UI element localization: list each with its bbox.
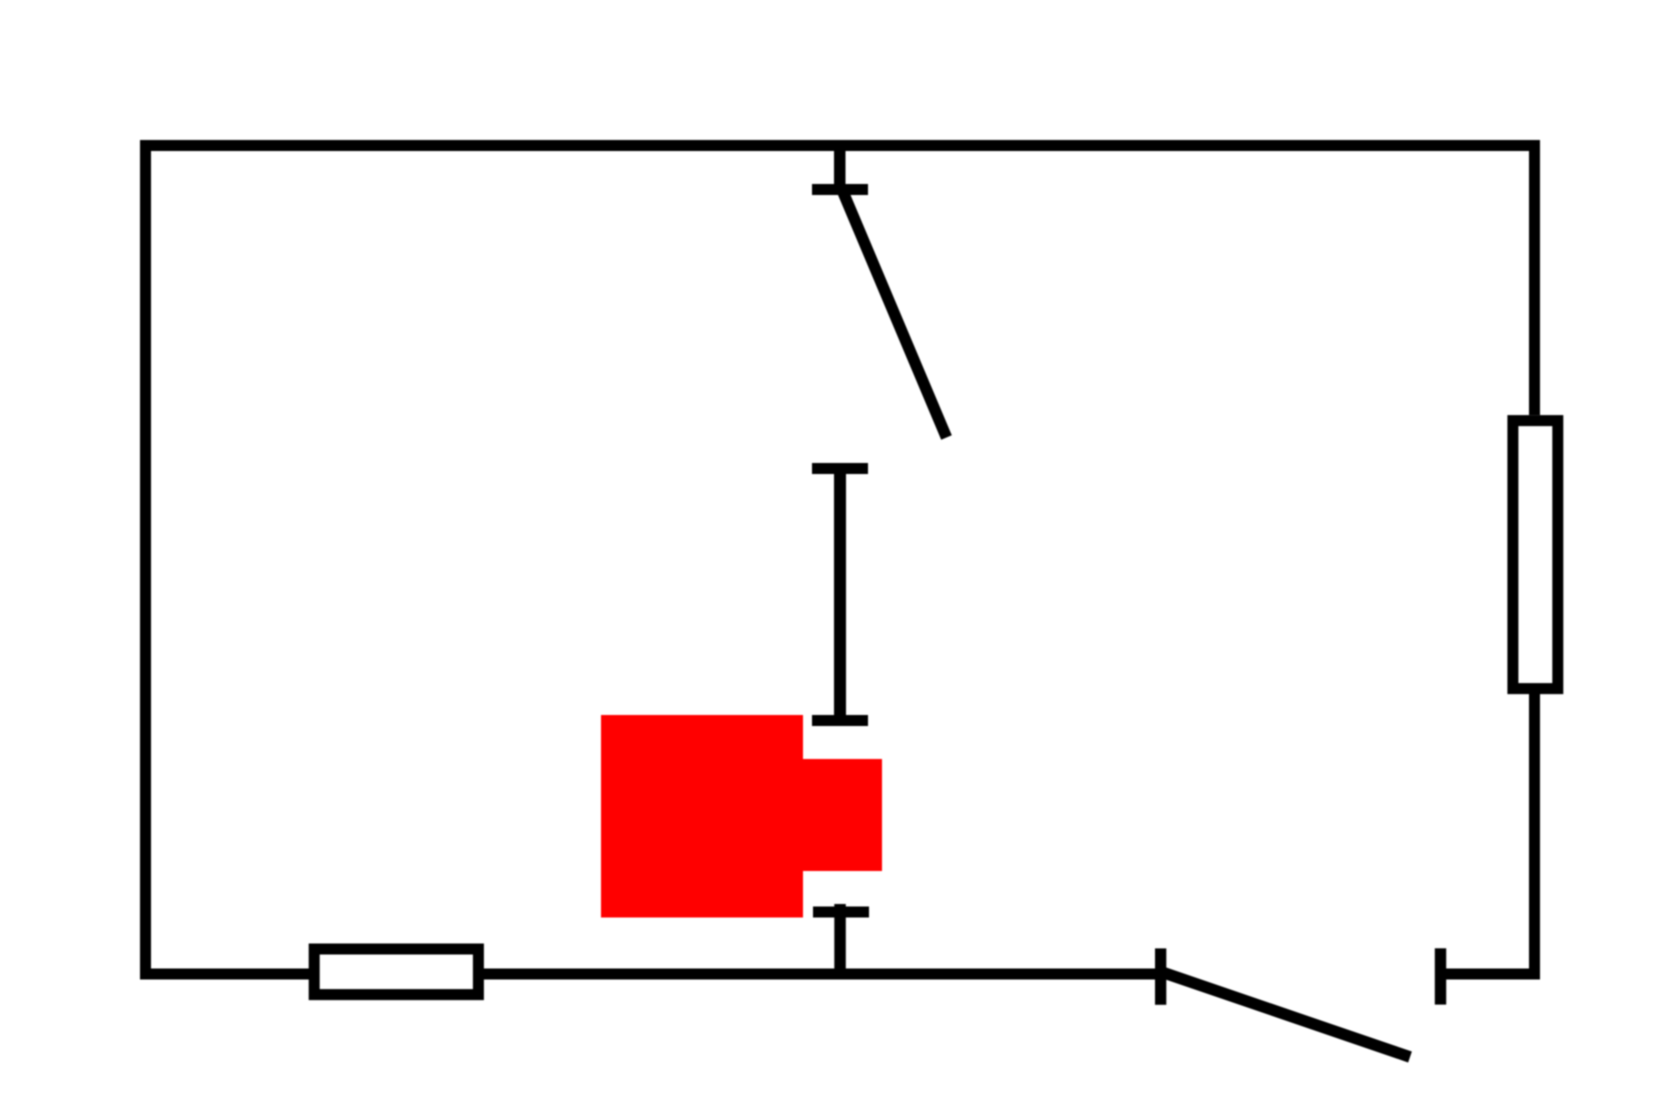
- switch S1 blade: [843, 192, 947, 438]
- switch S2 right contact bar: [1435, 948, 1446, 1004]
- switch S2 left contact bar: [1155, 948, 1166, 1004]
- wire right lower segment: [1529, 694, 1540, 980]
- armature lower contact bar: [812, 715, 868, 726]
- wire stem to bottom wire: [834, 904, 846, 974]
- wire bottom-left segment: [140, 969, 1155, 980]
- resistor R2 (right): [1513, 421, 1558, 689]
- wire left: [140, 140, 151, 980]
- node contact bar above bottom wire: [813, 907, 869, 918]
- resistor R1 (bottom left): [314, 949, 478, 995]
- armature stem: [834, 470, 846, 716]
- wire bottom-right segment: [1446, 969, 1540, 980]
- armature upper contact bar: [812, 463, 868, 474]
- wire right upper segment: [1529, 140, 1540, 415]
- switch S1 stem: [834, 145, 846, 184]
- switch S2 blade: [1163, 973, 1410, 1058]
- switch S1 fixed contact bar: [812, 184, 868, 195]
- electromagnet coil (red): [601, 715, 882, 918]
- wire top: [140, 140, 1540, 151]
